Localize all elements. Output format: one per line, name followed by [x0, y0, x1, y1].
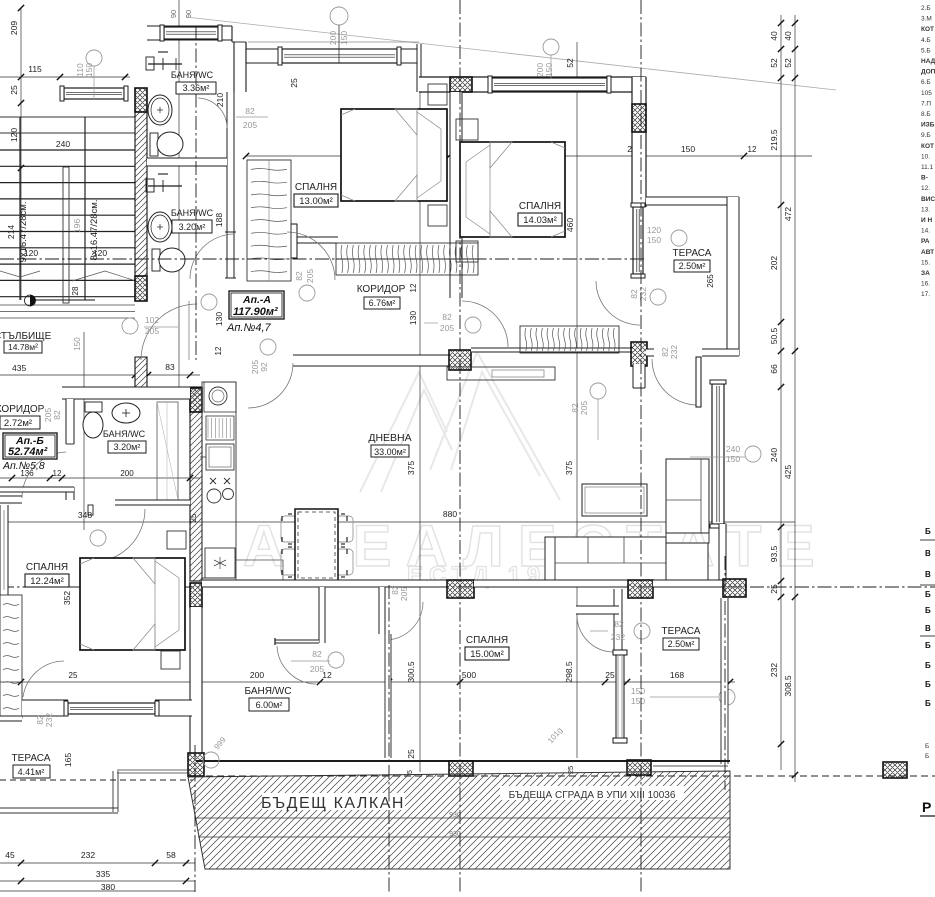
terrace1 window in x632 wall [633, 207, 643, 274]
bath2 toilet [152, 249, 160, 271]
bath1 sink [148, 95, 172, 125]
svg-text:120: 120 [9, 128, 19, 142]
stair direction dot [30, 295, 36, 306]
svg-text:120: 120 [93, 248, 107, 258]
bed12 [80, 558, 185, 650]
nightstands13 [428, 84, 447, 105]
sofa L [545, 537, 666, 580]
roofline thin [248, 41, 419, 43]
svg-text:4.Б: 4.Б [921, 37, 931, 44]
svg-text:15.00м²: 15.00м² [470, 649, 503, 660]
svg-text:25: 25 [406, 749, 416, 759]
bedroom12 door [92, 509, 145, 562]
corridor-terrace door [652, 359, 696, 405]
wardrobe12 [0, 595, 22, 718]
svg-text:КОТ: КОТ [921, 143, 934, 150]
svg-text:25: 25 [605, 670, 615, 680]
watermark logo [360, 352, 560, 500]
svg-text:Б: Б [925, 699, 931, 708]
wall stub below col [633, 364, 645, 388]
svg-text:В-: В- [921, 175, 928, 182]
svg-text:232: 232 [44, 713, 54, 727]
svg-text:93.5: 93.5 [769, 545, 779, 562]
svg-text:КОРИДОР: КОРИДОР [357, 284, 406, 295]
svg-text:ДНЕВНА: ДНЕВНА [368, 432, 411, 444]
bottom wall of living [202, 580, 447, 587]
svg-text:16.: 16. [921, 281, 930, 288]
hatched col corridor right [631, 342, 647, 366]
svg-text:14.78м²: 14.78м² [8, 342, 38, 352]
svg-text:92: 92 [259, 362, 269, 372]
svg-text:СПАЛНЯ: СПАЛНЯ [26, 562, 68, 573]
svg-text:150: 150 [726, 454, 740, 464]
stair rail [63, 167, 69, 303]
svg-text:205: 205 [305, 269, 315, 283]
svg-text:205: 205 [579, 401, 589, 415]
corridor wardrobe top [336, 243, 478, 275]
svg-text:930: 930 [449, 831, 461, 838]
terrace2 right wall [721, 598, 728, 764]
wardrobe13 [247, 160, 291, 281]
svg-text:150: 150 [73, 337, 82, 351]
svg-text:83: 83 [165, 362, 175, 372]
svg-text:12.24м²: 12.24м² [30, 576, 63, 587]
svg-text:52.74м²: 52.74м² [8, 446, 48, 458]
right wall band x632 [632, 77, 646, 207]
svg-text:232: 232 [81, 850, 95, 860]
svg-text:115: 115 [28, 64, 42, 74]
svg-text:308.5: 308.5 [783, 675, 793, 697]
svg-text:25: 25 [9, 85, 19, 95]
svg-text:130: 130 [214, 312, 224, 326]
svg-text:90: 90 [184, 10, 193, 18]
svg-text:9.Б: 9.Б [921, 132, 931, 139]
svg-text:Б: Б [925, 641, 931, 650]
bath1 door [198, 98, 227, 128]
svg-text:58: 58 [166, 850, 176, 860]
dim line y522 "880" [0, 521, 795, 523]
tv cabinet [447, 367, 555, 380]
dim line y682 [0, 681, 735, 683]
svg-text:РА: РА [921, 238, 930, 245]
svg-text:НАД: НАД [921, 58, 935, 65]
svg-text:12: 12 [53, 469, 62, 478]
kitchen drainer [206, 416, 234, 440]
right columns bottom [883, 762, 907, 778]
svg-text:50.5: 50.5 [769, 327, 779, 344]
bedroom14 terrace door arc [596, 281, 640, 325]
svg-text:Б: Б [925, 753, 929, 760]
svg-text:352: 352 [62, 591, 72, 605]
svg-text:8.Б: 8.Б [921, 111, 931, 118]
svg-text:40: 40 [783, 31, 793, 41]
svg-text:БЪДЕЩА СГРАДА В УПИ ХIII 10036: БЪДЕЩА СГРАДА В УПИ ХIII 10036 [509, 790, 676, 801]
bedroom12 bottom wall + window [155, 700, 192, 716]
svg-text:375: 375 [406, 461, 416, 475]
svg-text:6.00м²: 6.00м² [256, 700, 283, 710]
svg-text:102: 102 [145, 315, 159, 325]
bath2 door arc [190, 234, 234, 279]
future building hatch [188, 771, 730, 869]
svg-text:150: 150 [631, 686, 645, 696]
kitchen fridge [205, 548, 235, 578]
stair window [64, 88, 124, 99]
kitchen counter [202, 382, 236, 578]
bedroom14 top wall band [419, 77, 646, 92]
terrace1 walls [646, 197, 739, 205]
terrace2 bottom parapet [653, 765, 728, 767]
axis dashdot verticals [459, 0, 461, 892]
bedroom13 door leaf + arc [291, 224, 297, 258]
bath6 partitions [319, 587, 325, 643]
bath2 tap [148, 185, 182, 187]
svg-text:ТЕРАСА: ТЕРАСА [662, 626, 701, 637]
svg-text:232: 232 [769, 663, 779, 677]
svg-text:880: 880 [443, 509, 457, 519]
svg-text:435: 435 [12, 363, 26, 373]
svg-text:130: 130 [408, 311, 418, 325]
svg-text:25: 25 [769, 584, 779, 594]
svg-text:165: 165 [63, 753, 73, 767]
svg-text:Ап.№4,7: Ап.№4,7 [226, 322, 272, 334]
svg-text:82: 82 [442, 312, 452, 322]
svg-text:12: 12 [748, 145, 757, 154]
ApB bath left wall [66, 399, 74, 444]
bath1 toilet [150, 133, 158, 156]
stairwell treads [0, 149, 135, 151]
svg-text:205: 205 [243, 120, 257, 130]
east window living [712, 384, 724, 524]
svg-text:2.50м²: 2.50м² [679, 261, 706, 271]
svg-text:5.Б: 5.Б [921, 47, 931, 54]
svg-text:232: 232 [638, 287, 648, 301]
svg-text:Ап.-А: Ап.-А [242, 294, 271, 306]
bedroom14 door [462, 301, 508, 347]
svg-text:12: 12 [214, 346, 223, 355]
nightstands14 [456, 119, 478, 140]
svg-text:90: 90 [169, 10, 178, 18]
svg-text:Ап.№5,8: Ап.№5,8 [2, 460, 45, 472]
bath divider wall y160 [147, 158, 227, 166]
svg-text:52: 52 [783, 58, 793, 68]
svg-text:БЪДЕЩ КАЛКАН: БЪДЕЩ КАЛКАН [261, 795, 405, 812]
bottom-left dims [0, 862, 195, 864]
svg-text:2.50м²: 2.50м² [668, 639, 695, 649]
bedroom12 top wall [0, 487, 74, 492]
wall between baths and bedroom13 [227, 92, 234, 278]
bedroom15 door [385, 602, 423, 640]
bath6 door [277, 646, 316, 684]
svg-text:10.: 10. [921, 153, 930, 160]
svg-text:25: 25 [189, 513, 198, 522]
svg-text:7.П: 7.П [921, 100, 931, 107]
svg-text:232: 232 [611, 632, 625, 642]
svg-text:930: 930 [449, 812, 461, 819]
svg-text:205: 205 [440, 323, 454, 333]
svg-text:БАНЯ/WC: БАНЯ/WC [103, 429, 146, 439]
svg-text:117.90м²: 117.90м² [233, 306, 278, 318]
ApB left window [0, 495, 22, 497]
svg-text:БАНЯ/WC: БАНЯ/WC [171, 70, 214, 80]
svg-text:12.: 12. [921, 185, 930, 192]
svg-text:105: 105 [921, 90, 932, 97]
svg-text:СПАЛНЯ: СПАЛНЯ [519, 201, 561, 212]
svg-text:240: 240 [56, 139, 70, 149]
svg-text:52: 52 [565, 58, 575, 68]
svg-text:ТЕРАСА: ТЕРАСА [12, 753, 51, 764]
top horizontal dim y77 [0, 76, 130, 78]
svg-text:472: 472 [783, 207, 793, 221]
svg-text:Б: Б [925, 680, 931, 689]
svg-text:Б: Б [925, 606, 931, 615]
svg-text:120: 120 [647, 225, 661, 235]
svg-text:240: 240 [726, 444, 740, 454]
svg-text:375: 375 [564, 461, 574, 475]
bedroom12-terrace door [23, 661, 64, 697]
svg-text:82: 82 [312, 649, 322, 659]
bath2 sink [148, 212, 172, 242]
svg-text:205: 205 [310, 664, 324, 674]
svg-text:КОТ: КОТ [921, 26, 934, 33]
central hatched wall [190, 387, 202, 581]
svg-text:45: 45 [5, 850, 15, 860]
terrace2 door frame [616, 652, 624, 741]
dashdot horizontal y587 [390, 586, 935, 588]
svg-text:425: 425 [783, 465, 793, 479]
svg-text:168: 168 [670, 670, 684, 680]
svg-text:В: В [925, 624, 931, 633]
left hatched wall [135, 112, 147, 276]
svg-text:Б: Б [925, 743, 929, 750]
svg-text:200: 200 [328, 31, 338, 45]
svg-text:ВИС: ВИС [921, 196, 935, 203]
svg-text:СПАЛНЯ: СПАЛНЯ [295, 182, 337, 193]
coffee table [582, 484, 647, 516]
svg-text:17.: 17. [921, 291, 930, 298]
svg-text:66: 66 [769, 364, 779, 374]
svg-text:6.Б: 6.Б [921, 79, 931, 86]
stair break chevron [72, 271, 139, 282]
svg-text:202: 202 [769, 256, 779, 270]
bedroom13 top wall + window [246, 49, 419, 63]
svg-text:150: 150 [647, 235, 661, 245]
svg-text:6.76м²: 6.76м² [369, 298, 396, 308]
dining table [281, 516, 311, 542]
wall step bath to bedroom13 [234, 42, 246, 92]
svg-text:52: 52 [769, 58, 779, 68]
bedroom12 west wall [0, 505, 8, 595]
svg-text:И Н: И Н [921, 217, 932, 224]
corridor wardrobe 2 [520, 326, 619, 353]
svg-text:13.: 13. [921, 206, 930, 213]
ApB bath top wall [62, 387, 190, 399]
living door bubble [590, 383, 606, 399]
svg-text:214: 214 [6, 225, 16, 239]
bath1 fixtures: tap [148, 63, 182, 65]
kitchen door arc [248, 363, 293, 408]
svg-text:219.5: 219.5 [769, 129, 779, 151]
svg-text:82: 82 [245, 106, 255, 116]
svg-text:150: 150 [544, 63, 554, 77]
grid bubbles + small labels [86, 50, 102, 66]
svg-text:15.: 15. [921, 259, 930, 266]
svg-text:82: 82 [52, 410, 62, 420]
svg-text:ЗА: ЗА [921, 270, 930, 277]
ApA label [229, 291, 284, 319]
svg-text:150: 150 [339, 31, 349, 45]
svg-text:188: 188 [214, 213, 224, 227]
svg-text:298.5: 298.5 [564, 661, 574, 683]
svg-text:3.20м²: 3.20м² [114, 442, 141, 452]
dim chains right [780, 15, 782, 770]
kitchen basin [206, 444, 234, 470]
svg-text:14.: 14. [921, 228, 930, 235]
kitchen sink top [204, 382, 236, 412]
svg-text:150: 150 [84, 63, 94, 77]
left dim chain [20, 8, 22, 300]
svg-text:ТЕРАСА: ТЕРАСА [673, 248, 712, 259]
svg-text:82: 82 [294, 271, 304, 281]
svg-text:196: 196 [72, 219, 82, 233]
ApB tall cabinet [157, 402, 178, 500]
kitchen stove [210, 478, 216, 484]
bedroom13/14 divider wall [450, 92, 462, 238]
svg-text:3.20м²: 3.20м² [179, 222, 206, 232]
svg-text:460: 460 [565, 218, 575, 232]
svg-text:150: 150 [631, 696, 645, 706]
corridor wall right segment [471, 348, 520, 352]
svg-text:265: 265 [706, 274, 715, 288]
svg-text:200: 200 [250, 670, 264, 680]
svg-text:2.Б: 2.Б [921, 5, 931, 12]
svg-text:2.72м²: 2.72м² [4, 418, 32, 429]
svg-text:232: 232 [669, 345, 679, 359]
svg-text:348: 348 [78, 510, 92, 520]
dashed boundary y776 [195, 775, 935, 777]
wall x190 lower [190, 607, 202, 753]
svg-text:Б: Б [925, 527, 931, 536]
svg-text:500: 500 [462, 670, 476, 680]
stair flight edges [19, 117, 21, 300]
svg-text:Б: Б [925, 590, 931, 599]
dim line y478 [0, 477, 200, 479]
grid verticals [178, 0, 180, 390]
svg-text:240: 240 [769, 448, 779, 462]
property boundary diagonal [186, 17, 836, 90]
dim line y375 stair [0, 374, 200, 376]
svg-text:В: В [925, 549, 931, 558]
svg-text:40: 40 [769, 31, 779, 41]
svg-text:14.03м²: 14.03м² [523, 215, 556, 226]
svg-text:СПАЛНЯ: СПАЛНЯ [466, 635, 508, 646]
ApB bath door arc [22, 452, 66, 498]
svg-text:209: 209 [9, 21, 19, 35]
svg-text:25: 25 [289, 78, 299, 88]
svg-text:120: 120 [24, 248, 38, 258]
svg-text:БАНЯ/WC: БАНЯ/WC [171, 208, 214, 218]
wall stub stairwell to bath [135, 357, 147, 388]
dim line y156 [246, 155, 812, 157]
svg-text:ДОП: ДОП [921, 69, 935, 76]
svg-text:205: 205 [43, 408, 53, 422]
svg-text:380: 380 [101, 882, 115, 892]
svg-text:3.М: 3.М [921, 16, 932, 23]
svg-text:5: 5 [407, 770, 414, 774]
svg-text:205: 205 [250, 360, 260, 374]
svg-text:В: В [925, 570, 931, 579]
svg-text:11.1: 11.1 [921, 164, 934, 171]
bath block top wall + window [147, 25, 232, 27]
svg-text:33.00м²: 33.00м² [374, 447, 406, 457]
bed14 [460, 142, 565, 237]
svg-text:БАНЯ/WC: БАНЯ/WC [245, 686, 292, 697]
svg-text:СТЪЛБИЩЕ: СТЪЛБИЩЕ [0, 331, 52, 342]
bedroom13 bottom wall [297, 237, 338, 243]
bed13 [341, 109, 447, 201]
hatch inner lines [196, 817, 730, 819]
svg-text:300.5: 300.5 [406, 661, 416, 683]
svg-text:28: 28 [71, 286, 80, 295]
svg-text:КОРИДОР: КОРИДОР [0, 404, 45, 415]
svg-text:Б: Б [925, 661, 931, 670]
svg-text:12: 12 [409, 283, 418, 292]
svg-text:200: 200 [120, 469, 134, 478]
corridor bottom wall [293, 355, 449, 366]
bottom wall bedroom15 [196, 760, 730, 762]
svg-text:335: 335 [96, 869, 110, 879]
svg-text:13.00м²: 13.00м² [299, 196, 332, 207]
kitchen low counter [236, 560, 283, 581]
svg-text:АВТ: АВТ [921, 249, 934, 256]
wall x385 lower [385, 634, 391, 758]
ApB bath fixtures [85, 402, 102, 412]
svg-text:82: 82 [614, 619, 624, 629]
svg-text:150: 150 [681, 144, 695, 154]
svg-text:ИЗБ: ИЗБ [921, 122, 935, 129]
svg-text:205: 205 [399, 587, 409, 601]
entrance door arc from stairwell [141, 304, 197, 360]
bedroom15/terrace partition [614, 589, 622, 652]
wall x419 thin [417, 44, 421, 92]
svg-text:25: 25 [69, 671, 78, 680]
svg-text:4.41м²: 4.41м² [18, 767, 45, 777]
svg-text:Р: Р [922, 799, 931, 815]
nightstands12 [167, 531, 186, 549]
